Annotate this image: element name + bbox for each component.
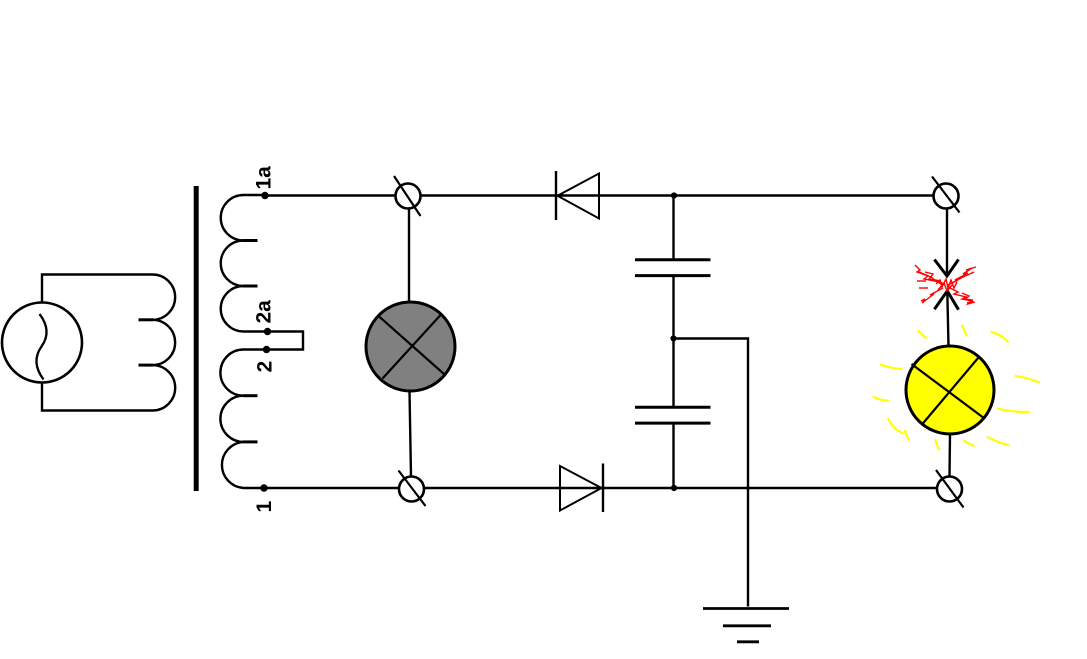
svg-text:1: 1 bbox=[253, 501, 276, 513]
svg-text:2: 2 bbox=[254, 361, 277, 373]
svg-text:2a: 2a bbox=[253, 300, 276, 324]
svg-text:1a: 1a bbox=[253, 166, 276, 190]
